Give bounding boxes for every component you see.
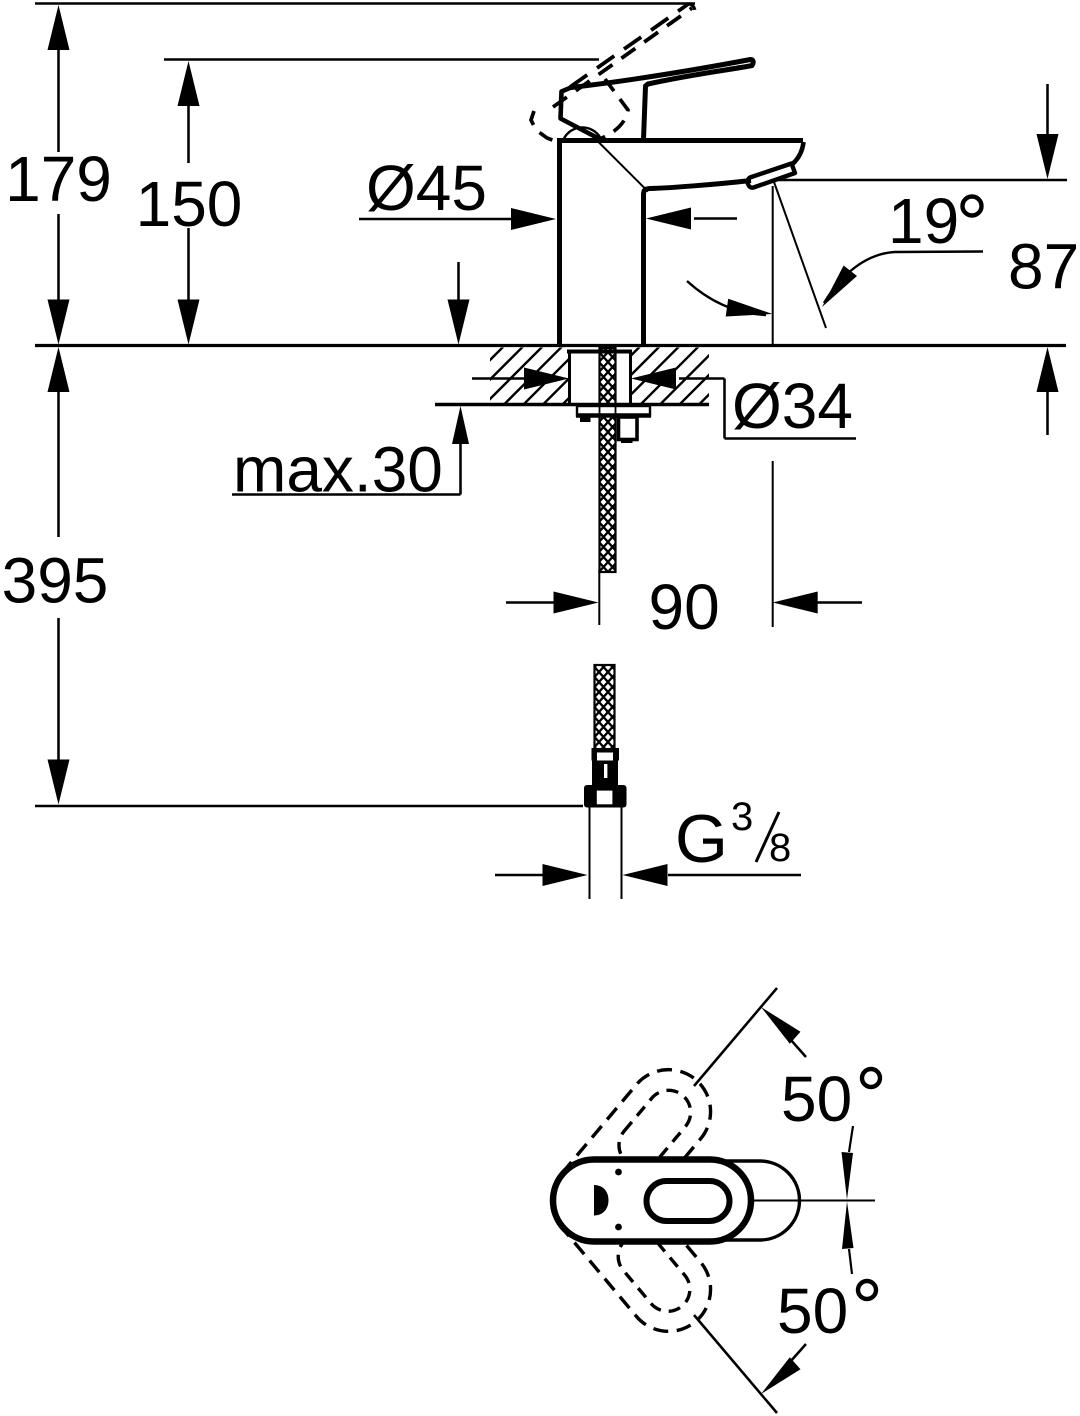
svg-text:8: 8 (769, 826, 791, 870)
svg-text:179: 179 (5, 143, 112, 215)
svg-text:90: 90 (649, 571, 720, 643)
svg-text:395: 395 (2, 545, 109, 617)
svg-text:Ø45: Ø45 (366, 152, 487, 224)
svg-text:3: 3 (731, 795, 753, 839)
svg-text:G: G (675, 801, 728, 877)
svg-text:50: 50 (777, 1275, 848, 1347)
svg-text:150: 150 (136, 168, 243, 240)
svg-text:max.30: max.30 (233, 434, 443, 506)
svg-text:Ø34: Ø34 (732, 370, 853, 442)
svg-text:87: 87 (1008, 231, 1079, 303)
svg-text:19: 19 (888, 185, 959, 257)
svg-text:50: 50 (781, 1063, 852, 1135)
